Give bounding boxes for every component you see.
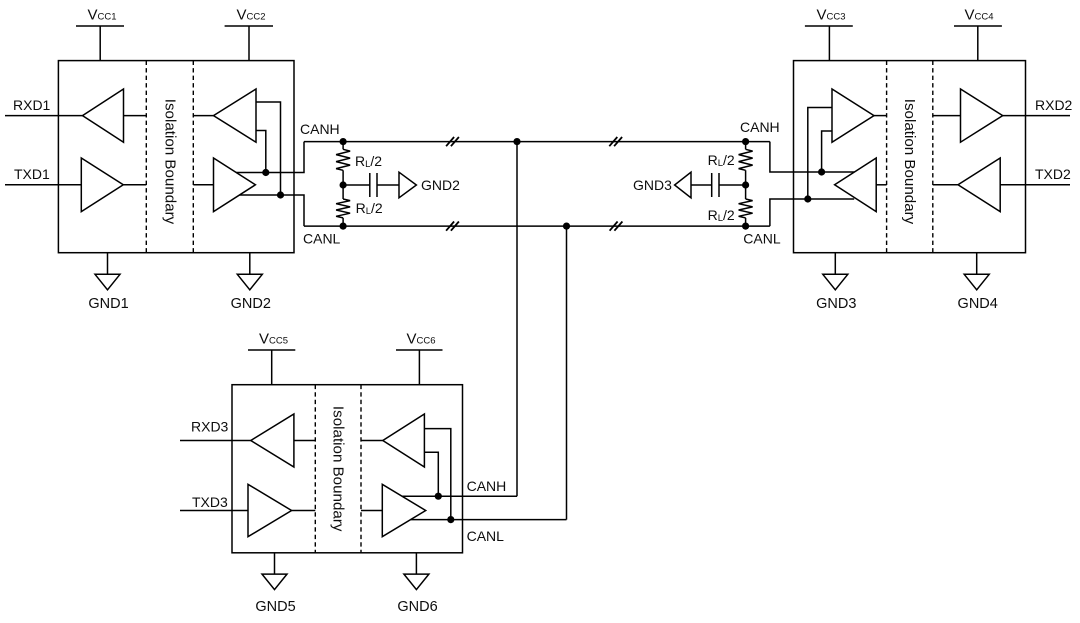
wire CANL bus: [304, 225, 770, 227]
svg-text:TXD1: TXD1: [14, 166, 50, 182]
wire CANL drop to U3: [566, 226, 568, 519]
svg-text:TXD2: TXD2: [1035, 166, 1071, 182]
svg-text:GND2: GND2: [231, 296, 271, 312]
svg-text:GND4: GND4: [958, 296, 998, 312]
svg-text:GND5: GND5: [255, 599, 295, 615]
junction dot U1 CANH: [262, 169, 269, 176]
svg-text:GND1: GND1: [88, 296, 128, 312]
VCC6 supply symbol: [396, 350, 443, 385]
wire receiver to boundary U2: [874, 115, 887, 117]
svg-text:RXD3: RXD3: [191, 419, 229, 435]
svg-text:CANL: CANL: [743, 231, 781, 247]
wire RX4 input from CANL: [424, 429, 450, 520]
VCC1 supply symbol: [76, 26, 124, 61]
svg-text:TXD3: TXD3: [192, 494, 228, 510]
driver TX2: [214, 158, 256, 212]
VCC2 supply symbol: [225, 26, 273, 61]
wire U2 receiver input from CANL: [808, 108, 832, 200]
wire TX3 to boundary: [292, 510, 316, 512]
wire U3 CANL pin: [411, 519, 567, 521]
wire driver to boundary U2: [876, 184, 886, 186]
wire C2 to GND3 arrow: [691, 184, 712, 186]
junction dot CANH left termination: [340, 138, 347, 145]
svg-text:RXD1: RXD1: [13, 97, 51, 113]
buffer RX2: [214, 89, 257, 142]
resistor RL/2 upper left: [336, 142, 350, 185]
wire RX2 input from CANH: [256, 131, 266, 173]
wire CANH drop to U3: [516, 142, 518, 497]
svg-text:RXD2: RXD2: [1035, 97, 1073, 113]
wire TX1 to boundary: [123, 184, 146, 186]
wire boundary to RX4: [361, 440, 383, 442]
wire U1 CANH pin: [236, 142, 304, 173]
CANH bus break left: [446, 137, 459, 146]
VCC3 supply symbol: [805, 26, 853, 61]
GND3 net arrow: [675, 172, 691, 198]
svg-text:GND3: GND3: [816, 296, 856, 312]
svg-text:CANH: CANH: [300, 121, 340, 137]
CANH bus break right: [609, 137, 622, 146]
svg-text:Isolation Boundary: Isolation Boundary: [330, 406, 347, 532]
wire boundary to RXD2 buffer: [933, 115, 961, 117]
wire TXD1: [5, 184, 81, 186]
wire CANH bus: [304, 141, 770, 143]
CANL bus break right: [610, 222, 623, 231]
capacitor C2: [712, 173, 719, 197]
wire RX4 input from CANH: [424, 452, 438, 496]
U1 isolation boundary dashed line left: [145, 61, 147, 253]
svg-text:Isolation Boundary: Isolation Boundary: [161, 99, 178, 225]
junction dot U3 CANH: [435, 493, 442, 500]
wire RX1 to boundary: [124, 115, 147, 117]
junction dot CANL drop: [563, 223, 570, 230]
capacitor C1: [370, 173, 377, 197]
U1 isolation boundary dashed line right: [192, 61, 194, 253]
GND6 symbol: [404, 553, 429, 590]
CANL bus break left: [446, 222, 459, 231]
svg-text:CANL: CANL: [303, 231, 341, 247]
junction dot CANL left termination: [340, 223, 347, 230]
wire RXD3: [180, 440, 251, 442]
buffer TX1: [81, 158, 123, 212]
transceiver U3 body: [232, 385, 463, 553]
VCC4 supply symbol: [954, 26, 1002, 61]
transceiver U2 body: [794, 61, 1026, 253]
wire boundary to TX4: [361, 510, 382, 512]
GND5 symbol: [262, 553, 287, 590]
buffer RX4: [383, 414, 425, 467]
wire boundary to RX2: [193, 115, 213, 117]
wire RX3 to boundary: [294, 440, 315, 442]
wire boundary to TX2: [193, 184, 213, 186]
wire RX2 input from CANL: [256, 102, 281, 195]
buffer RXD2 out: [961, 89, 1003, 142]
node dot left termination mid: [340, 181, 347, 188]
node dot right termination mid: [742, 181, 749, 188]
buffer TX3: [248, 484, 292, 536]
wire TXD2: [1000, 184, 1070, 186]
junction dot CANH drop: [513, 138, 520, 145]
U3 isolation boundary dashed line left: [314, 385, 316, 553]
junction dot CANH right termination: [742, 138, 749, 145]
wire U2 CANL pin: [770, 199, 854, 226]
wire RXD2: [1003, 115, 1070, 117]
wire boundary to TXD2 buffer: [933, 184, 958, 186]
wire TXD3: [180, 510, 248, 512]
wire C1 to GND2 arrow: [377, 184, 399, 186]
junction dot U2 CANH: [818, 168, 825, 175]
GND2 net arrow: [399, 172, 416, 198]
GND4 symbol: [964, 253, 989, 290]
transceiver U1 body: [58, 61, 294, 253]
driver TX U2 bus side: [835, 158, 877, 212]
wire U2 receiver input from CANH: [822, 131, 832, 172]
junction dot U1 CANL: [277, 191, 284, 198]
U3 isolation boundary dashed line right: [360, 385, 362, 553]
GND2 symbol: [237, 253, 262, 290]
wire U3 CANH pin: [402, 495, 517, 497]
buffer RX3: [251, 414, 294, 467]
svg-text:CANL: CANL: [467, 528, 505, 544]
wire mid node to capacitor C2: [719, 184, 746, 186]
U2 isolation boundary dashed line right: [932, 61, 934, 253]
svg-text:GND2: GND2: [421, 177, 460, 193]
svg-text:GND3: GND3: [633, 177, 672, 193]
resistor RL/2 lower right: [739, 185, 753, 226]
receiver buffer U2 bus side: [832, 89, 874, 142]
buffer RX1: [83, 89, 124, 142]
svg-text:GND6: GND6: [397, 599, 437, 615]
junction dot CANL right termination: [742, 223, 749, 230]
resistor RL/2 upper right: [739, 142, 753, 185]
wire U2 CANH pin: [770, 142, 855, 172]
junction dot U2 CANL: [804, 195, 811, 202]
driver TX4: [382, 484, 425, 536]
wire mid node to capacitor C1: [343, 184, 370, 186]
svg-text:CANH: CANH: [467, 478, 507, 494]
svg-text:CANH: CANH: [740, 119, 780, 135]
GND1 symbol: [95, 253, 120, 290]
resistor RL/2 lower left: [336, 185, 350, 226]
svg-text:Isolation Boundary: Isolation Boundary: [901, 99, 918, 225]
junction dot U3 CANL: [447, 516, 454, 523]
GND3 symbol: [823, 253, 848, 290]
wire U1 CANL pin: [240, 195, 305, 226]
VCC5 supply symbol: [248, 350, 295, 385]
wire RXD1: [5, 115, 83, 117]
buffer TXD2 in: [958, 158, 1000, 212]
U2 isolation boundary dashed line left: [886, 61, 888, 253]
